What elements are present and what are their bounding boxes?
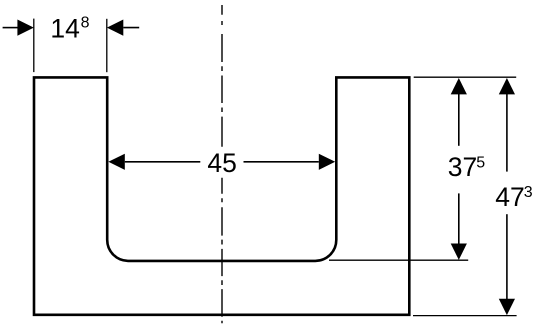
dimension 14-8 left tail bbox=[3, 27, 19, 29]
dimension 14-8 left arrowhead bbox=[17, 20, 33, 36]
dimension 37-5 bottom arrowhead bbox=[451, 244, 467, 260]
dimension 45 right arrowhead bbox=[319, 154, 335, 170]
dimension 37-5 line upper segment bbox=[458, 94, 460, 146]
dimension 14-8 right arrowhead bbox=[107, 20, 123, 36]
U-channel profile outline bbox=[34, 77, 409, 314]
dimension 47-3 line lower segment bbox=[506, 214, 508, 299]
svg-text:473: 473 bbox=[495, 182, 533, 212]
dimension 45 line left segment bbox=[125, 161, 201, 163]
slot bottom extension line bbox=[329, 259, 468, 261]
svg-text:148: 148 bbox=[50, 13, 89, 43]
dimension 47-3 bottom arrowhead bbox=[499, 299, 515, 315]
dimension 47-3 line upper segment bbox=[506, 94, 508, 172]
dimension 45 line right segment bbox=[244, 161, 319, 163]
top extension line for vertical dimensions bbox=[414, 76, 517, 78]
dimension 37-5 line lower segment bbox=[458, 193, 460, 244]
bottom extension line bbox=[413, 315, 517, 317]
svg-text:45: 45 bbox=[207, 148, 236, 178]
dimension 14-8 right tail bbox=[123, 27, 139, 29]
dimension 47-3 top arrowhead bbox=[499, 78, 515, 94]
dimension 37-5 top arrowhead bbox=[451, 78, 467, 94]
dimension 14-8 extension line left bbox=[33, 19, 35, 73]
svg-text:375: 375 bbox=[448, 152, 486, 182]
dimension 45 left arrowhead bbox=[108, 154, 124, 170]
dimension 14-8 extension line right bbox=[106, 19, 108, 72]
centerline bbox=[221, 5, 223, 323]
